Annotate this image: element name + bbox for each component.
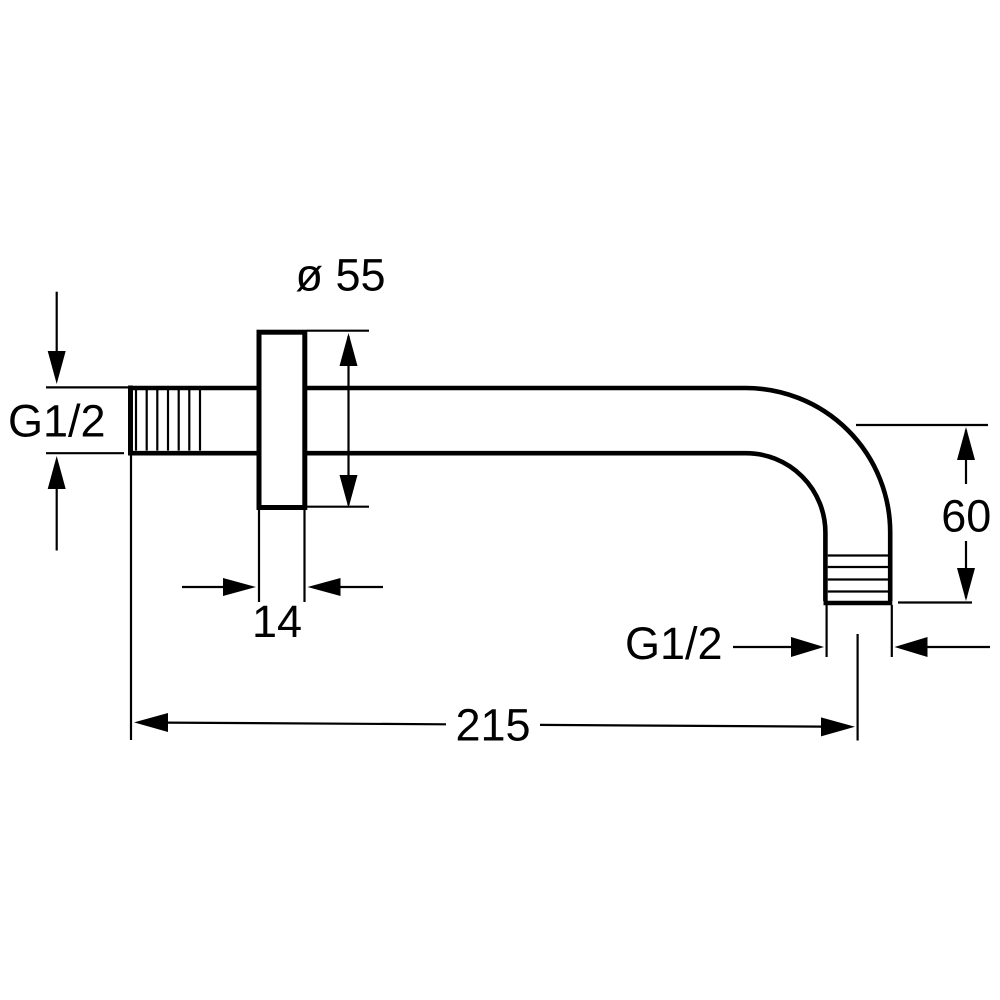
dimension line 60 lower xyxy=(965,541,967,598)
svg-text:14: 14 xyxy=(252,596,302,647)
pipe inner outline (bottom edge, bend, left edge of drop) xyxy=(131,453,826,601)
outlet thread hatching (bottom G1/2 thread) xyxy=(828,556,890,592)
arrowhead G1/2 outlet left-pointing xyxy=(895,637,928,657)
extension line outlet left edge xyxy=(825,605,827,657)
arrowhead G1/2 down xyxy=(48,351,66,384)
dimension line 215 right xyxy=(540,725,823,727)
extension line flange bottom xyxy=(307,506,369,508)
dimension line 14 right xyxy=(340,586,383,588)
leader line G1/2 outlet right xyxy=(927,646,990,648)
svg-text:ø 55: ø 55 xyxy=(295,250,385,301)
extension line pipe left end lower (215) xyxy=(130,455,132,740)
arrowhead 215 right-pointing xyxy=(821,717,855,736)
wall thread hatching (left G1/2 thread) xyxy=(136,390,200,451)
dimension line G1/2 upper xyxy=(56,292,58,352)
arrowhead o55 up xyxy=(340,333,358,366)
svg-text:G1/2: G1/2 xyxy=(625,618,723,669)
extension line bend top-right (60) xyxy=(856,424,988,426)
arrowhead o55 down xyxy=(340,475,358,508)
arrowhead G1/2 up xyxy=(48,456,66,489)
extension line flange right lower xyxy=(303,510,305,602)
extension line flange top xyxy=(307,330,369,332)
arrowhead 14 left-pointing xyxy=(308,578,341,596)
dimension line 215 left xyxy=(165,723,446,725)
pipe bottom end cap xyxy=(824,601,893,606)
flange escutcheon (o 55) xyxy=(259,332,305,507)
arrowhead G1/2 outlet right-pointing xyxy=(791,637,824,657)
arrowhead 215 left-pointing xyxy=(134,713,168,732)
arrowhead 60 down xyxy=(957,568,975,601)
arrowhead 60 up xyxy=(957,427,975,460)
dimension line 14 left xyxy=(182,586,224,588)
svg-text:215: 215 xyxy=(455,700,530,751)
dimension line 60 upper xyxy=(965,430,967,484)
svg-text:G1/2: G1/2 xyxy=(8,396,106,447)
pipe left end cap xyxy=(128,386,133,456)
outlet centre line xyxy=(856,634,858,741)
leader line G1/2 outlet left xyxy=(733,646,792,648)
extension line outlet right edge xyxy=(891,605,893,657)
svg-text:60: 60 xyxy=(941,491,991,542)
extension line flange left lower xyxy=(258,510,260,602)
extension line outlet end right (60) xyxy=(898,601,972,603)
extension line pipe top-left xyxy=(46,386,128,388)
pipe outer outline (top edge, bend, right edge) xyxy=(131,388,891,601)
arrowhead 14 right-pointing xyxy=(223,578,256,596)
dimension line o55 xyxy=(347,336,349,505)
dimension line G1/2 lower xyxy=(56,489,58,551)
extension line pipe bottom-left xyxy=(46,452,124,454)
